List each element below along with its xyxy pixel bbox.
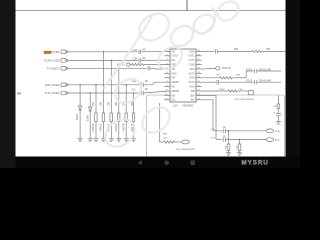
node X09-S1 (127, 63, 130, 66)
junction dots right (228, 130, 241, 140)
wire pin15 to R166 (202, 90, 228, 92)
connector P3 oval (182, 140, 190, 144)
connector FCAM CVBS (61, 59, 68, 63)
capacitor EC26 (255, 69, 257, 73)
ground D306 (88, 139, 93, 142)
svg-text:C10: C10 (132, 89, 137, 91)
wire pin18 (202, 77, 220, 79)
op-amp U16 box (170, 49, 196, 102)
diode D303 column (78, 85, 81, 139)
resistor on X09 row (130, 64, 146, 66)
wire T0R to split (232, 77, 246, 79)
svg-text:2DA/16.045: 2DA/16.045 (259, 68, 272, 71)
wire R06 to edge (262, 50, 286, 52)
ground D303 (78, 139, 83, 142)
wire R166 to C66 box (237, 90, 248, 92)
connector DVR-VIDEO (61, 83, 68, 87)
svg-text:OUT1: OUT1 (188, 56, 195, 58)
wire pin14 down (202, 95, 216, 139)
svg-text:EC10: EC10 (246, 81, 252, 83)
resistor R30 (164, 141, 175, 143)
wire to EC10 cap (219, 81, 254, 83)
svg-text:2DA/16.045: 2DA/16.045 (259, 80, 272, 83)
svg-text:FMS6502: FMS6502 (182, 103, 194, 107)
wire TV row (68, 67, 148, 69)
resistor R35 on rail (277, 95, 280, 113)
svg-text:AUX-VIDEO: AUX-VIDEO (45, 91, 60, 95)
svg-text:R4103: R4103 (99, 123, 103, 131)
connector TV-VIDEO (61, 67, 68, 71)
capacitor C4A (141, 83, 143, 87)
connector DVR oval (266, 129, 274, 133)
wire down to R30 row (160, 103, 164, 142)
wire C2A to pin1 (141, 50, 170, 52)
svg-text:R166: R166 (219, 89, 225, 91)
nav back icon (138, 160, 142, 165)
right pin numbers (197, 50, 200, 100)
svg-text:ADDR1: ADDR1 (171, 81, 180, 84)
capacitor C2B (139, 58, 141, 62)
right pin stubs (196, 50, 202, 52)
svg-text:INB: INB (191, 91, 195, 93)
resistor R06 (252, 50, 262, 52)
svg-text:FCAM CVBS: FCAM CVBS (44, 59, 60, 63)
wire row A (213, 130, 222, 132)
left pin stubs (164, 55, 170, 57)
resistor R4100 column (95, 85, 97, 139)
svg-text:E303: E303 (75, 113, 79, 120)
svg-text:EC26: EC26 (246, 69, 252, 71)
connector AUX-VIDEO (61, 91, 68, 95)
resistor R4176 column (132, 93, 134, 139)
wire AUX row (68, 92, 141, 94)
wire EC26 right (257, 70, 281, 72)
wire to EC26 (246, 70, 254, 72)
wire split vertical (245, 71, 247, 78)
wire pin17 to EC10 (202, 81, 216, 83)
ground C35 (276, 122, 281, 125)
wire cap to R06 (217, 50, 252, 52)
capacitor C29 (223, 137, 225, 141)
svg-text:DVR-VIDEO: DVR-VIDEO (45, 83, 60, 87)
wire pin24 out (202, 50, 215, 52)
capacitor C10 (141, 91, 143, 95)
ground symbols under resistor array (78, 139, 137, 142)
svg-text:R4078: R4078 (121, 123, 125, 131)
wire C4A to pin8 (143, 82, 170, 85)
wire R30 to connector (175, 141, 182, 143)
svg-text:AUX-: AUX- (275, 139, 280, 142)
svg-text:75R: 75R (91, 101, 95, 106)
svg-text:OUT3: OUT3 (188, 73, 195, 75)
svg-text:6042_6800/FB0706: 6042_6800/FB0706 (176, 149, 196, 151)
nav home icon (164, 160, 169, 165)
svg-text:75R: 75R (114, 101, 118, 106)
svg-text:CH1/2: CH1/2 (171, 56, 178, 58)
svg-text:C2A: C2A (133, 49, 138, 52)
resistor R32 vertical (238, 140, 241, 153)
resistor R4078 column (125, 85, 127, 139)
wire C2C to pin5 (150, 67, 170, 70)
capacitor C35 (276, 114, 281, 122)
ground R31 (226, 153, 231, 156)
ground R4100 (93, 139, 98, 142)
ground R32 (237, 153, 242, 156)
connector AUX oval (266, 138, 274, 142)
top border line (16, 10, 286, 12)
wire EC10 right (257, 81, 281, 83)
page background (0, 0, 300, 168)
ground R4078 (124, 139, 129, 142)
wire C30 to DVR connector (225, 130, 266, 132)
right pin names (188, 51, 195, 101)
watermark swirl letters (100, 0, 242, 152)
svg-text:75R: 75R (107, 101, 111, 106)
left black bar (0, 0, 16, 168)
wire C10 to pin10 (143, 91, 170, 93)
resistor R4103 column (102, 52, 104, 139)
svg-text:ADDR2: ADDR2 (171, 90, 180, 93)
svg-text:MYSRU: MYSRU (242, 159, 269, 166)
capacitor EC10 (255, 80, 257, 84)
resistor R31 vertical (227, 131, 230, 153)
svg-text:DVR-: DVR- (275, 131, 281, 133)
capacitor C2A (139, 50, 141, 54)
svg-text:SCL: SCL (171, 100, 176, 102)
svg-text:CVBS: CVBS (52, 50, 60, 54)
connector CVBS (61, 50, 68, 54)
wire FCAM row (68, 59, 138, 61)
wire X09 to pin4 (146, 64, 170, 66)
highlight on RCAM label (44, 51, 51, 54)
svg-text:TV-VIDEO: TV-VIDEO (47, 67, 60, 71)
resistor R4102 column (118, 68, 120, 138)
svg-text:GND: GND (189, 51, 194, 53)
bottom nav bar (16, 157, 301, 169)
svg-text:GND: GND (171, 73, 176, 75)
svg-text:VDD: VDD (190, 69, 195, 71)
rotated value labels of array (75, 101, 134, 131)
ground R4102 (116, 139, 121, 142)
resistor R4107 column (110, 60, 112, 138)
svg-text:INA: INA (191, 99, 195, 102)
diode D306 column (89, 93, 92, 139)
wire C29 to AUX connector (225, 139, 266, 141)
resistor R166 (228, 90, 237, 92)
ground R4107 (109, 139, 114, 142)
svg-text:R4100: R4100 (91, 123, 95, 131)
capacitor series pin24 (216, 49, 218, 53)
nav recent icon (190, 160, 195, 165)
left pin names (171, 51, 180, 101)
wire DVR row (68, 84, 141, 86)
wire C2B to pin3 (141, 59, 170, 61)
svg-text:75R: 75R (226, 145, 228, 149)
wire pin13 down (202, 100, 213, 131)
svg-text:OUT4: OUT4 (188, 82, 195, 84)
capacitor series pin17 (217, 80, 219, 84)
resistor T0R (220, 77, 233, 79)
svg-text:T0R: T0R (236, 74, 241, 76)
svg-text:E306: E306 (85, 114, 89, 121)
left pin numbers (165, 50, 168, 100)
capacitor C2C (148, 66, 150, 70)
svg-text:75R: 75R (237, 145, 239, 149)
svg-text:R06: R06 (234, 49, 239, 51)
left page-edge smudge (17, 92, 21, 94)
svg-text:VDD-5V: VDD-5V (222, 67, 232, 70)
wire row B (216, 139, 222, 141)
svg-text:SDA: SDA (190, 94, 195, 97)
junction dots left (79, 51, 134, 94)
svg-text:GND: GND (189, 87, 194, 89)
svg-text:C2B: C2B (133, 59, 138, 61)
svg-text:OUT2: OUT2 (188, 60, 195, 62)
capacitor C30 (223, 129, 225, 133)
schematic (16, 0, 286, 11)
svg-text:75R: 75R (99, 101, 103, 106)
wire CVBS row (68, 51, 138, 53)
power node VDD-5V (202, 66, 220, 70)
svg-text:U16: U16 (173, 103, 178, 107)
component C66 (248, 91, 254, 95)
ground R4176 (131, 139, 136, 142)
svg-text:R4102: R4102 (114, 123, 118, 131)
svg-text:GND: GND (189, 78, 194, 80)
svg-text:75R: 75R (266, 49, 271, 51)
right black bar (286, 0, 301, 168)
svg-text:GND: GND (189, 65, 194, 67)
top tick mark (186, 0, 188, 11)
svg-text:6042_6800/FB0706: 6042_6800/FB0706 (235, 99, 255, 101)
ground R4103 (101, 139, 106, 142)
